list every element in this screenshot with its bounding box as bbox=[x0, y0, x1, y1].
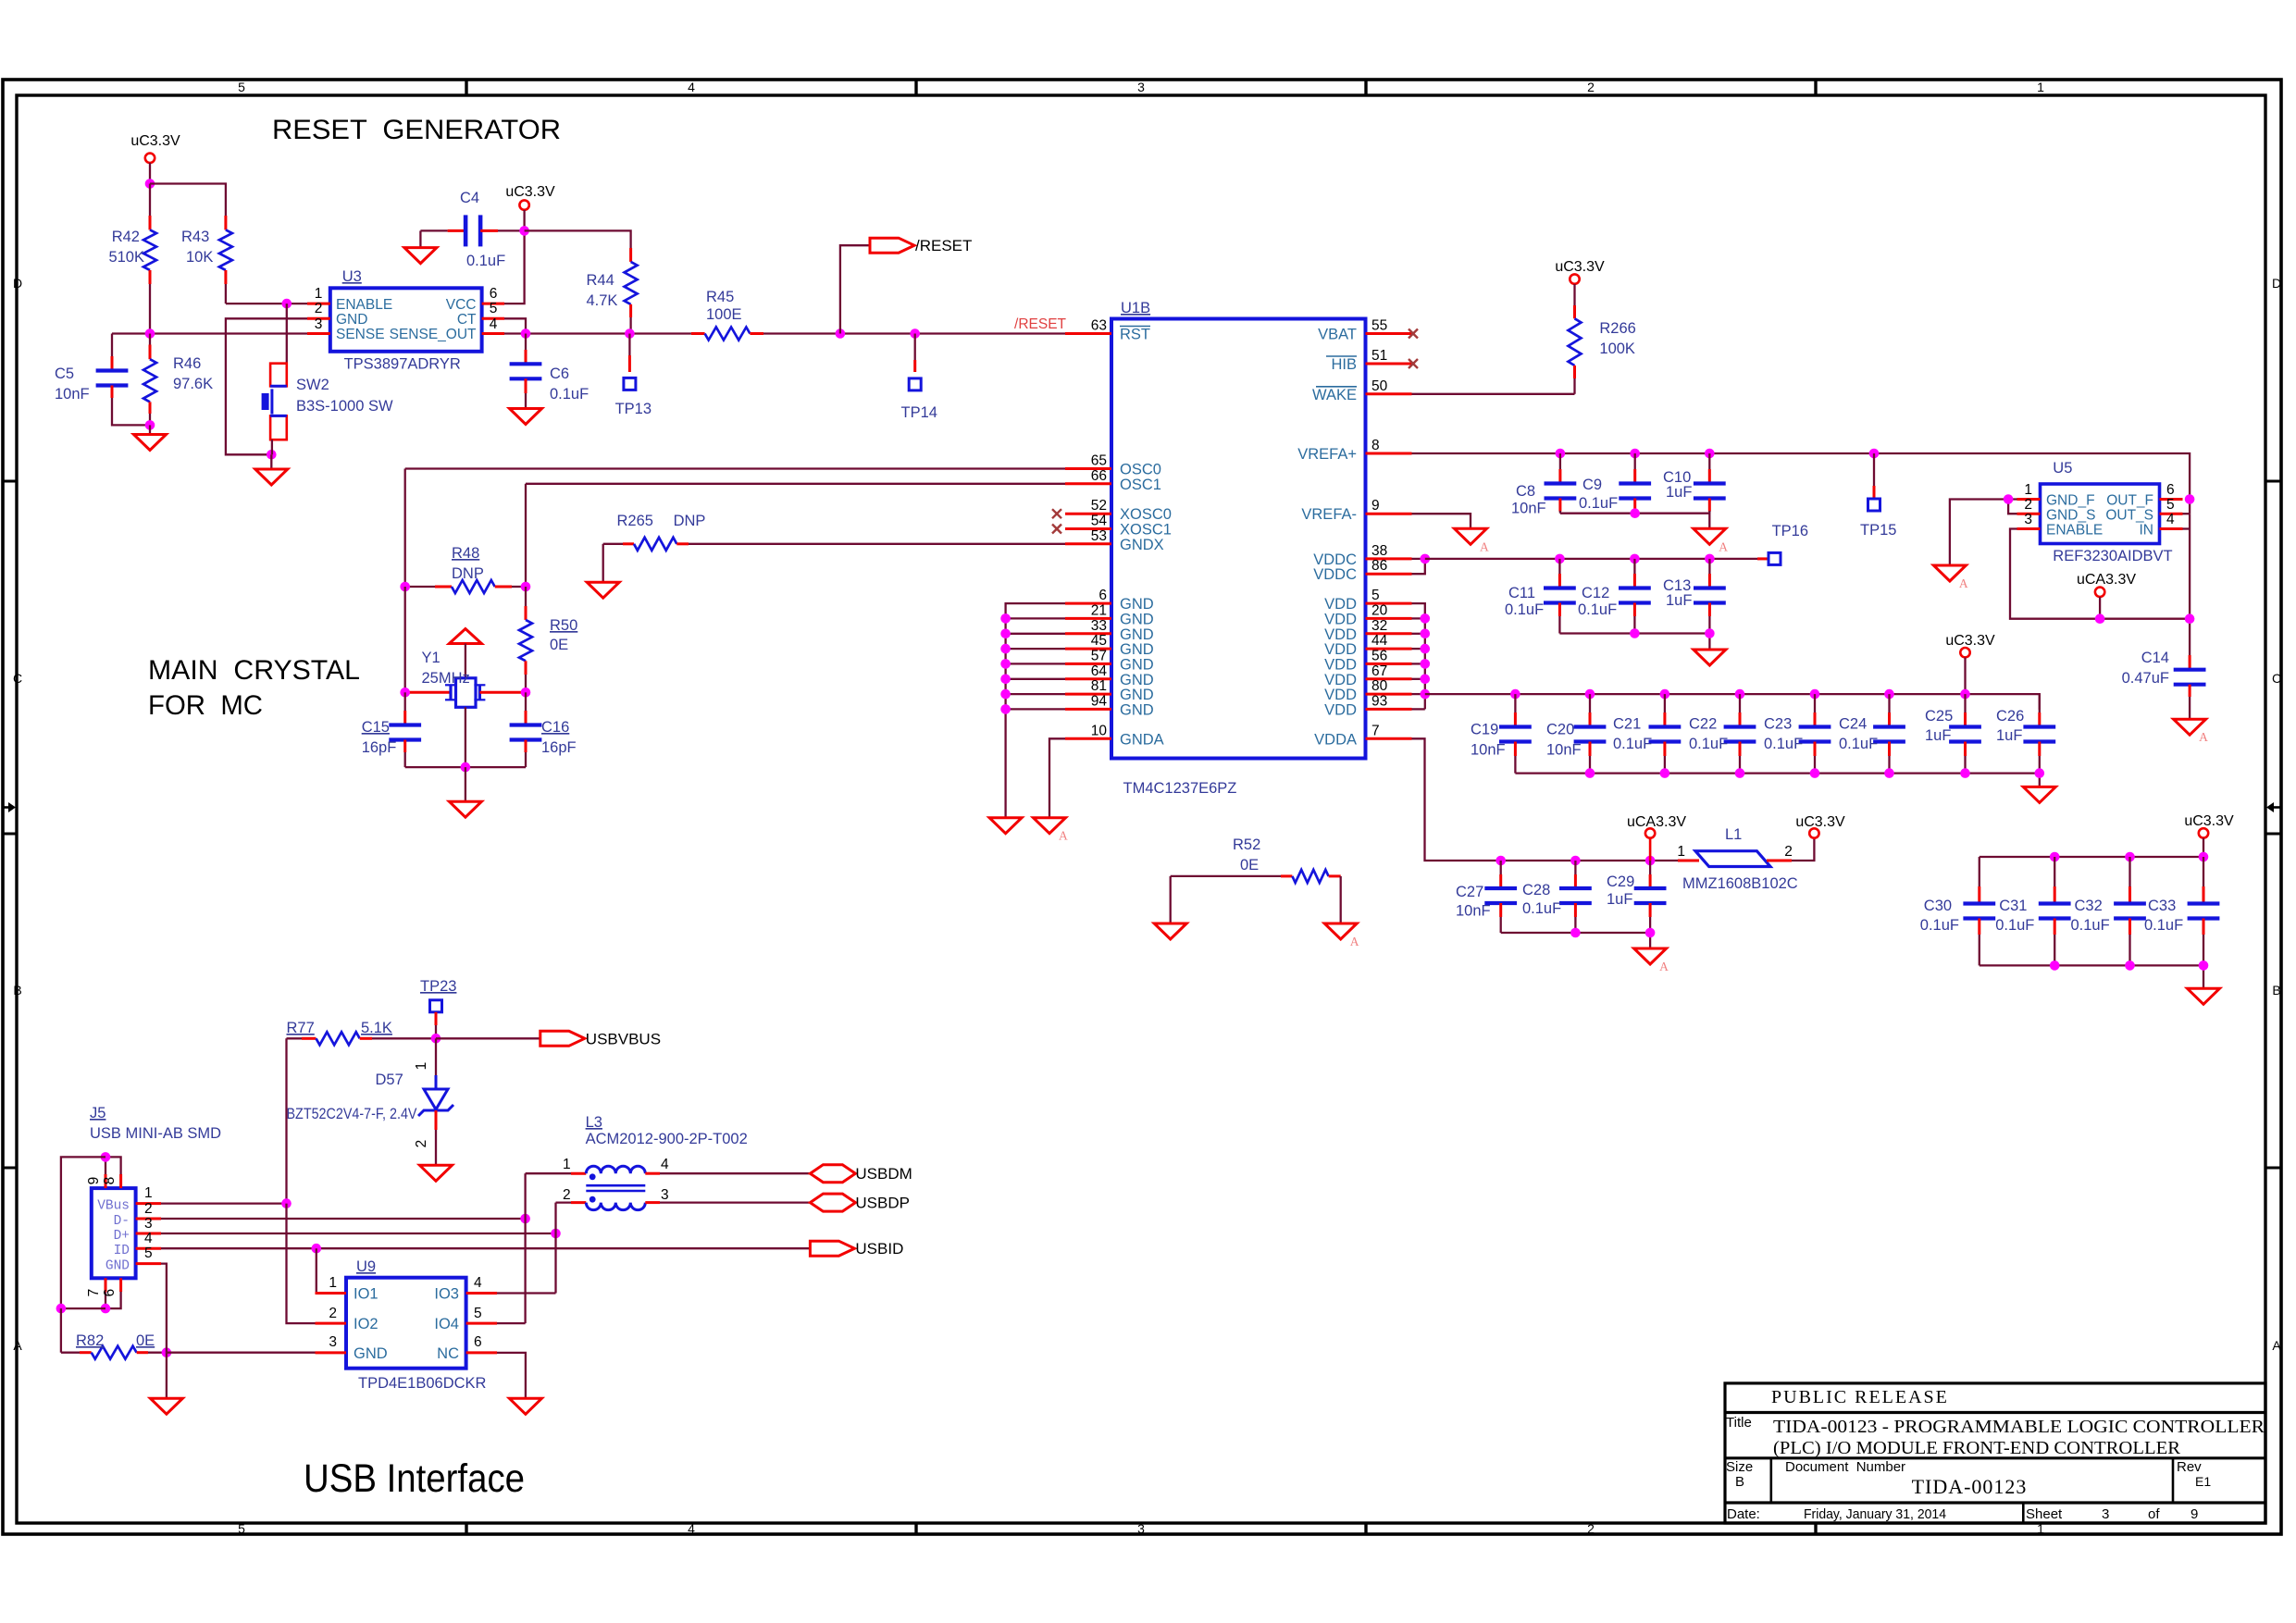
svg-text:GND: GND bbox=[1120, 596, 1154, 613]
pin 2 U9 bbox=[316, 1306, 347, 1323]
capacitor C8 bbox=[1511, 453, 1576, 517]
wire U9 IO4 to D- bbox=[497, 1322, 526, 1324]
wire C4 rail to R44 bbox=[525, 230, 631, 248]
node C5/R46 ground junction bbox=[145, 420, 155, 430]
svg-text:0.1uF: 0.1uF bbox=[2071, 917, 2110, 934]
svg-text:GND: GND bbox=[1120, 611, 1154, 627]
ground A (VREFA-) bbox=[1455, 528, 1487, 544]
node C13 ground junction bbox=[1705, 628, 1715, 638]
pin 2 J5 D- bbox=[136, 1201, 161, 1219]
svg-text:4: 4 bbox=[490, 316, 498, 332]
svg-text:uC3.3V: uC3.3V bbox=[1555, 259, 1605, 275]
wire U5 OUT_S join bbox=[2183, 513, 2191, 514]
svg-text:10nF: 10nF bbox=[55, 386, 90, 403]
svg-text:B: B bbox=[13, 983, 21, 997]
svg-text:C23: C23 bbox=[1764, 716, 1792, 733]
pin 4 U5 bbox=[2160, 512, 2183, 529]
svg-text:TPD4E1B06DCKR: TPD4E1B06DCKR bbox=[358, 1375, 487, 1392]
wire D+ to U9 IO3 bbox=[554, 1233, 556, 1294]
svg-text:GND: GND bbox=[1120, 701, 1154, 718]
svg-text:TP16: TP16 bbox=[1772, 523, 1808, 539]
pin 6 U3 bbox=[482, 286, 504, 304]
node VDDC C12 bbox=[1630, 554, 1640, 564]
svg-text:A: A bbox=[1719, 539, 1728, 553]
pin 80 U1B VDD bbox=[1324, 678, 1411, 703]
svg-text:0.1uF: 0.1uF bbox=[1920, 917, 1959, 934]
capacitor C20 bbox=[1546, 694, 1606, 774]
pin 3 U5 bbox=[2017, 512, 2041, 529]
wire U3 GND pin2 to ground rail bbox=[226, 318, 307, 454]
svg-text:GND: GND bbox=[1120, 641, 1154, 658]
svg-text:0E: 0E bbox=[136, 1332, 155, 1349]
svg-text:VDDA: VDDA bbox=[1314, 731, 1357, 748]
svg-text:OSC0: OSC0 bbox=[1120, 462, 1161, 478]
wire VREFA- to ground bbox=[1412, 514, 1471, 528]
node crystal left junction bbox=[400, 688, 410, 698]
svg-text:R266: R266 bbox=[1599, 320, 1635, 337]
svg-text:100K: 100K bbox=[1599, 341, 1635, 357]
svg-text:4: 4 bbox=[144, 1231, 153, 1246]
svg-text:1uF: 1uF bbox=[1666, 484, 1692, 501]
capacitor C15 bbox=[362, 692, 421, 767]
svg-text:44: 44 bbox=[1371, 633, 1388, 649]
capacitor C16 bbox=[510, 692, 577, 767]
node J5 shell bottom junction bbox=[101, 1304, 111, 1314]
no-connect X HIB bbox=[1409, 359, 1418, 368]
wire USBDP net bbox=[660, 1201, 810, 1203]
ground (C4) bbox=[404, 230, 437, 263]
title block bbox=[1725, 1383, 2265, 1523]
wire R82 to U9 GND bbox=[167, 1352, 316, 1354]
svg-text:(PLC) I/O MODULE FRONT-END CON: (PLC) I/O MODULE FRONT-END CONTROLLER bbox=[1773, 1438, 2180, 1458]
svg-text:1: 1 bbox=[2037, 80, 2044, 94]
capacitor C28 bbox=[1522, 861, 1592, 933]
svg-text:5: 5 bbox=[490, 301, 498, 316]
svg-text:VREFA-: VREFA- bbox=[1301, 506, 1357, 523]
svg-text:Y1: Y1 bbox=[422, 650, 441, 666]
svg-text:A: A bbox=[2199, 730, 2208, 744]
svg-text:VBus: VBus bbox=[97, 1199, 130, 1214]
pin 65 U1B OSC0 bbox=[1065, 453, 1161, 478]
svg-text:C19: C19 bbox=[1471, 722, 1498, 738]
switch SW2 B3S-1000 bbox=[262, 304, 393, 454]
resistor R50 bbox=[519, 587, 577, 692]
svg-text:R77: R77 bbox=[287, 1020, 315, 1036]
svg-text:25MHz: 25MHz bbox=[422, 670, 470, 687]
svg-text:RST: RST bbox=[1120, 327, 1150, 343]
pin 52 U1B XOSC0 bbox=[1065, 498, 1172, 523]
ground (C19 rail) bbox=[2023, 787, 2055, 802]
node uC3.3V junction bbox=[145, 179, 155, 189]
svg-text:VDD: VDD bbox=[1324, 596, 1357, 613]
wire crystal ground rail bbox=[405, 766, 526, 768]
svg-text:86: 86 bbox=[1371, 558, 1387, 574]
svg-text:2: 2 bbox=[2024, 497, 2032, 513]
svg-text:uC3.3V: uC3.3V bbox=[130, 133, 180, 149]
svg-text:A: A bbox=[1959, 576, 1968, 590]
node C33 bottom bbox=[2199, 960, 2209, 971]
ground A (C10 rail) bbox=[1694, 528, 1726, 544]
capacitor C21 bbox=[1613, 694, 1681, 774]
wire C30 bank top rail bbox=[1980, 856, 2203, 858]
svg-text:10: 10 bbox=[1091, 723, 1108, 738]
wire VREFA+ rail bbox=[1412, 453, 2191, 514]
pin 7 U1B VDDA bbox=[1314, 723, 1411, 748]
node SW2/ENABLE junction bbox=[282, 299, 292, 309]
svg-text:uC3.3V: uC3.3V bbox=[2184, 813, 2234, 829]
wire uC3.3V to R43 bbox=[150, 184, 226, 217]
wire GNDA bbox=[1049, 738, 1065, 817]
ground A (R52 right) bbox=[1324, 923, 1357, 939]
svg-text:ID: ID bbox=[114, 1244, 130, 1258]
svg-text:38: 38 bbox=[1371, 543, 1387, 559]
pin 94 U1B GND bbox=[1065, 693, 1154, 718]
node C6 junction bbox=[521, 328, 531, 339]
svg-text:4: 4 bbox=[2166, 512, 2175, 527]
svg-text:U5: U5 bbox=[2053, 460, 2072, 477]
wire R77 left vertical bbox=[285, 1038, 287, 1203]
resistor R43 bbox=[181, 216, 232, 304]
svg-text:uCA3.3V: uCA3.3V bbox=[1627, 814, 1686, 830]
pin 45 U1B GND bbox=[1065, 633, 1154, 658]
svg-text:0.1uF: 0.1uF bbox=[1613, 736, 1652, 752]
svg-text:SW2: SW2 bbox=[296, 377, 329, 393]
svg-text:uC3.3V: uC3.3V bbox=[505, 184, 555, 200]
node VDD rail C21 bbox=[1660, 689, 1670, 700]
node C31 bottom bbox=[2050, 960, 2060, 971]
pin 63 U1B RST bbox=[1065, 318, 1150, 343]
svg-text:1: 1 bbox=[414, 1062, 429, 1071]
svg-text:C5: C5 bbox=[55, 365, 74, 382]
pin 56 U1B VDD bbox=[1324, 648, 1411, 673]
svg-text:B3S-1000 SW: B3S-1000 SW bbox=[296, 398, 393, 415]
wire U5 ENABLE rail bbox=[2010, 529, 2190, 619]
svg-text:L1: L1 bbox=[1725, 826, 1742, 843]
esd diode U9 TPD4E1B06DCKR box bbox=[346, 1258, 487, 1392]
svg-text:C22: C22 bbox=[1689, 716, 1717, 733]
svg-text:C27: C27 bbox=[1456, 884, 1483, 900]
wire C27-C29 ground rail bbox=[1501, 933, 1650, 948]
node VBus junction bbox=[281, 1198, 292, 1208]
wire VDD bundle bbox=[1412, 603, 1425, 709]
pin 5 J5 GND bbox=[136, 1245, 161, 1264]
no-connect X XOSC1 bbox=[1052, 525, 1061, 534]
capacitor C29 bbox=[1607, 861, 1667, 933]
wire shell to R82 bbox=[61, 1307, 105, 1309]
wire C30 bank bottom rail bbox=[1980, 965, 2203, 988]
node R82 left junction bbox=[56, 1304, 67, 1314]
svg-text:80: 80 bbox=[1371, 678, 1388, 694]
svg-text:R82: R82 bbox=[76, 1332, 104, 1349]
capacitor C23 bbox=[1764, 694, 1831, 774]
svg-text:C26: C26 bbox=[1996, 708, 2024, 725]
pin 4 U9 bbox=[466, 1275, 497, 1294]
ground (reset divider) bbox=[134, 425, 167, 450]
svg-text:A: A bbox=[1350, 935, 1359, 948]
svg-text:uC3.3V: uC3.3V bbox=[1795, 814, 1845, 830]
pin 5 U5 bbox=[2160, 497, 2183, 514]
resistor R45 bbox=[691, 289, 763, 341]
svg-text:BZT52C2V4-7-F, 2.4V: BZT52C2V4-7-F, 2.4V bbox=[287, 1106, 417, 1122]
power symbol uC3.3V (C30 bank) bbox=[2184, 813, 2234, 857]
ground (U9 NC) bbox=[509, 1398, 541, 1414]
svg-text:D57: D57 bbox=[376, 1072, 403, 1088]
node TP23/USBVBUS junction bbox=[431, 1034, 441, 1044]
pin 64 U1B GND bbox=[1065, 663, 1154, 688]
svg-text:TP15: TP15 bbox=[1860, 522, 1896, 539]
ground flipped (crystal case top) bbox=[449, 629, 481, 678]
wire J5 shell to left rail bbox=[61, 1157, 105, 1308]
svg-text:VDD: VDD bbox=[1324, 687, 1357, 703]
pin 66 U1B OSC1 bbox=[1065, 468, 1161, 493]
wire ID to U9 IO1 bbox=[316, 1248, 316, 1293]
svg-text:8: 8 bbox=[1371, 438, 1380, 453]
svg-text:U1B: U1B bbox=[1121, 300, 1150, 316]
pin 5 U9 bbox=[466, 1306, 497, 1323]
svg-text:GND: GND bbox=[1120, 626, 1154, 643]
connector J5 USB MINI-AB SMD box bbox=[90, 1105, 221, 1278]
node GND bundle junctions bbox=[1000, 613, 1011, 714]
pin 3 U9 bbox=[316, 1334, 347, 1353]
resistor R52 bbox=[1171, 836, 1341, 923]
svg-text:C29: C29 bbox=[1607, 873, 1634, 890]
svg-text:SENSE: SENSE bbox=[336, 327, 385, 342]
net flag /RESET bbox=[840, 237, 973, 333]
svg-text:NC: NC bbox=[437, 1345, 459, 1362]
node VDD rail C24 bbox=[1884, 689, 1894, 700]
wire R43 to U3 ENABLE bbox=[226, 303, 307, 304]
svg-text:0.1uF: 0.1uF bbox=[1578, 601, 1617, 618]
svg-text:57: 57 bbox=[1091, 648, 1107, 663]
capacitor C32 bbox=[2071, 857, 2146, 965]
svg-text:XOSC0: XOSC0 bbox=[1120, 506, 1172, 523]
node VREFA+ C10 bbox=[1705, 449, 1715, 459]
svg-text:C20: C20 bbox=[1546, 722, 1574, 738]
capacitor C19 bbox=[1471, 694, 1532, 774]
capacitor C26 bbox=[1996, 694, 2055, 774]
pin 1 U9 bbox=[316, 1275, 347, 1294]
svg-text:J5: J5 bbox=[90, 1105, 105, 1121]
svg-text:5.1K: 5.1K bbox=[361, 1020, 392, 1036]
svg-text:A: A bbox=[13, 1338, 22, 1353]
test point TP14 bbox=[901, 334, 937, 422]
pin 8 U1B VREFA+ bbox=[1297, 438, 1411, 463]
node VDD rail C22 bbox=[1735, 689, 1745, 700]
svg-text:0.1uF: 0.1uF bbox=[550, 386, 589, 403]
power symbol uCA3.3V (L1) bbox=[1627, 814, 1686, 861]
svg-text:U3: U3 bbox=[342, 268, 362, 285]
ground (R265) bbox=[587, 544, 619, 598]
test point TP16 bbox=[1769, 523, 1808, 564]
svg-text:R42: R42 bbox=[112, 229, 140, 245]
svg-text:USB MINI-AB SMD: USB MINI-AB SMD bbox=[90, 1125, 221, 1142]
svg-text:uCA3.3V: uCA3.3V bbox=[2077, 572, 2136, 588]
resistor R77 bbox=[287, 1020, 437, 1045]
capacitor C12 bbox=[1578, 559, 1651, 634]
svg-text:GND: GND bbox=[354, 1345, 388, 1362]
svg-text:TIDA-00123: TIDA-00123 bbox=[1912, 1475, 2028, 1498]
svg-text:8: 8 bbox=[102, 1177, 118, 1185]
svg-text:C31: C31 bbox=[1999, 898, 2027, 914]
pin 55 U1B VBAT bbox=[1318, 318, 1411, 343]
wire USBDM net bbox=[660, 1172, 810, 1174]
svg-text:50: 50 bbox=[1371, 378, 1388, 394]
pin 54 U1B XOSC1 bbox=[1065, 514, 1172, 539]
svg-text:A: A bbox=[1659, 960, 1669, 973]
svg-text:21: 21 bbox=[1091, 602, 1107, 618]
svg-text:C25: C25 bbox=[1925, 708, 1953, 725]
node R42/SENSE junction bbox=[145, 328, 155, 339]
svg-text:55: 55 bbox=[1371, 318, 1387, 334]
svg-text:C: C bbox=[2272, 671, 2281, 686]
node ENABLE/IN junction bbox=[2185, 613, 2195, 624]
pin 1 J5 VBus bbox=[136, 1185, 161, 1204]
node C29 ground junction bbox=[1645, 928, 1656, 938]
svg-text:1: 1 bbox=[329, 1275, 337, 1291]
svg-text:VDD: VDD bbox=[1324, 701, 1357, 718]
svg-text:51: 51 bbox=[1371, 348, 1387, 364]
svg-text:0.1uF: 0.1uF bbox=[466, 253, 505, 269]
svg-text:6: 6 bbox=[474, 1334, 482, 1350]
svg-text:4: 4 bbox=[688, 80, 695, 94]
svg-text:3: 3 bbox=[1137, 1521, 1145, 1536]
svg-text:0.1uF: 0.1uF bbox=[1764, 736, 1803, 752]
svg-text:E1: E1 bbox=[2195, 1474, 2211, 1489]
svg-text:C24: C24 bbox=[1839, 716, 1867, 733]
svg-text:Size: Size bbox=[1726, 1459, 1753, 1475]
svg-text:0.1uF: 0.1uF bbox=[1522, 900, 1561, 917]
svg-text:3: 3 bbox=[329, 1334, 337, 1350]
power symbol uC3.3V (VDD rail) bbox=[1945, 633, 1995, 694]
power symbol uCA3.3V (U5) bbox=[2077, 572, 2136, 619]
svg-text:VBAT: VBAT bbox=[1318, 327, 1357, 343]
svg-text:VDD: VDD bbox=[1324, 672, 1357, 688]
wire C11-C13 ground rail bbox=[1559, 634, 1709, 650]
svg-text:20: 20 bbox=[1371, 602, 1388, 618]
wire U3 VCC up to C4 rail bbox=[504, 230, 525, 304]
svg-text:OSC1: OSC1 bbox=[1120, 477, 1161, 493]
svg-text:9: 9 bbox=[1371, 498, 1380, 514]
svg-text:5: 5 bbox=[144, 1245, 153, 1261]
svg-text:66: 66 bbox=[1091, 468, 1107, 484]
node D- junction bbox=[520, 1214, 530, 1224]
svg-text:510K: 510K bbox=[108, 249, 144, 266]
wire U5 IN down to C14 bbox=[2183, 514, 2191, 655]
ground (R52 left) bbox=[1154, 923, 1186, 939]
svg-text:67: 67 bbox=[1371, 663, 1387, 679]
svg-text:0.1uF: 0.1uF bbox=[1579, 495, 1618, 512]
capacitor C13 bbox=[1663, 559, 1726, 634]
section title MAIN CRYSTAL FOR MC bbox=[148, 655, 360, 721]
capacitor C33 bbox=[2144, 857, 2219, 965]
svg-text:C4: C4 bbox=[460, 190, 479, 206]
op-amp U3 TPS3897ADRYR box bbox=[330, 268, 482, 373]
svg-text:USBDM: USBDM bbox=[855, 1165, 912, 1183]
svg-text:6: 6 bbox=[1098, 588, 1107, 603]
svg-text:VDD: VDD bbox=[1324, 626, 1357, 643]
wire VDDC rail to TP16 bbox=[1425, 558, 1769, 560]
node VREFA+ C8 bbox=[1556, 449, 1566, 459]
svg-text:B: B bbox=[2272, 983, 2280, 997]
pin 2 U3 bbox=[307, 301, 330, 318]
svg-text:D: D bbox=[2272, 276, 2281, 291]
svg-text:4: 4 bbox=[474, 1275, 482, 1291]
ground (J5/R82) bbox=[150, 1353, 182, 1415]
svg-text:TM4C1237E6PZ: TM4C1237E6PZ bbox=[1123, 780, 1237, 797]
svg-text:DNP: DNP bbox=[674, 513, 706, 529]
node VDDA C27 bbox=[1496, 856, 1506, 866]
node VDDC C13 bbox=[1705, 554, 1715, 564]
node VDD rail C19 bbox=[1510, 689, 1520, 700]
svg-text:R48: R48 bbox=[452, 545, 479, 562]
pin 38 U1B VDDC bbox=[1313, 543, 1411, 568]
svg-text:7: 7 bbox=[86, 1289, 102, 1297]
svg-text:B: B bbox=[1735, 1474, 1744, 1490]
power symbol uC3.3V (L1 out) bbox=[1795, 814, 1845, 838]
wire VDDA rail bbox=[1412, 738, 1679, 861]
svg-text:GNDX: GNDX bbox=[1120, 537, 1164, 553]
wire OSC0 net bbox=[405, 467, 1065, 469]
svg-text:6: 6 bbox=[490, 286, 498, 302]
wire VDDC pins join bbox=[1412, 559, 1425, 574]
svg-text:uC3.3V: uC3.3V bbox=[1945, 633, 1995, 649]
capacitor C31 bbox=[1995, 857, 2070, 965]
svg-text:6: 6 bbox=[102, 1289, 118, 1297]
svg-text:Document Number: Document Number bbox=[1785, 1459, 1905, 1475]
svg-text:C14: C14 bbox=[2141, 650, 2169, 666]
test point TP13 bbox=[615, 334, 652, 418]
svg-text:TPS3897ADRYR: TPS3897ADRYR bbox=[344, 356, 461, 373]
svg-text:R46: R46 bbox=[173, 355, 201, 372]
capacitor C30 bbox=[1920, 857, 1995, 965]
svg-text:OUT_S: OUT_S bbox=[2105, 508, 2153, 524]
svg-text:D: D bbox=[13, 276, 22, 291]
pin 1 U5 bbox=[2017, 482, 2041, 500]
svg-text:1: 1 bbox=[2024, 482, 2032, 498]
svg-text:33: 33 bbox=[1091, 618, 1107, 634]
svg-text:2: 2 bbox=[1587, 1521, 1595, 1536]
node C32 bottom bbox=[2125, 960, 2135, 971]
svg-text:4: 4 bbox=[661, 1157, 669, 1172]
svg-text:C8: C8 bbox=[1516, 483, 1535, 500]
node VREFA+ C9 bbox=[1630, 449, 1640, 459]
node C33 top bbox=[2199, 852, 2209, 862]
svg-text:2: 2 bbox=[315, 301, 323, 316]
wire GND bundle bbox=[1006, 603, 1065, 818]
net flag USBID bbox=[810, 1241, 854, 1256]
pin 9 U1B VREFA- bbox=[1301, 498, 1411, 523]
svg-text:5: 5 bbox=[474, 1306, 482, 1321]
pin 2 U5 bbox=[2017, 497, 2041, 514]
pin 1 U3 bbox=[307, 286, 330, 304]
pin 21 U1B GND bbox=[1065, 602, 1154, 627]
svg-text:IN: IN bbox=[2140, 523, 2154, 539]
svg-text:C30: C30 bbox=[1924, 898, 1952, 914]
svg-text:A: A bbox=[1059, 829, 1068, 843]
svg-text:1: 1 bbox=[563, 1157, 571, 1172]
ground (crystal) bbox=[449, 767, 481, 817]
svg-text:5: 5 bbox=[1371, 588, 1380, 603]
svg-text:2: 2 bbox=[1784, 844, 1793, 860]
test point TP23 bbox=[420, 978, 456, 1038]
svg-text:IO1: IO1 bbox=[354, 1286, 379, 1303]
svg-text:of: of bbox=[2148, 1506, 2160, 1522]
svg-text:C16: C16 bbox=[541, 719, 569, 736]
pin 9 J5 shell bbox=[86, 1157, 105, 1188]
wire R77/IO2 vertical bbox=[287, 1204, 316, 1324]
svg-text:Friday, January 31, 2014: Friday, January 31, 2014 bbox=[1804, 1506, 1946, 1522]
pin 86 U1B VDDC bbox=[1313, 558, 1411, 583]
